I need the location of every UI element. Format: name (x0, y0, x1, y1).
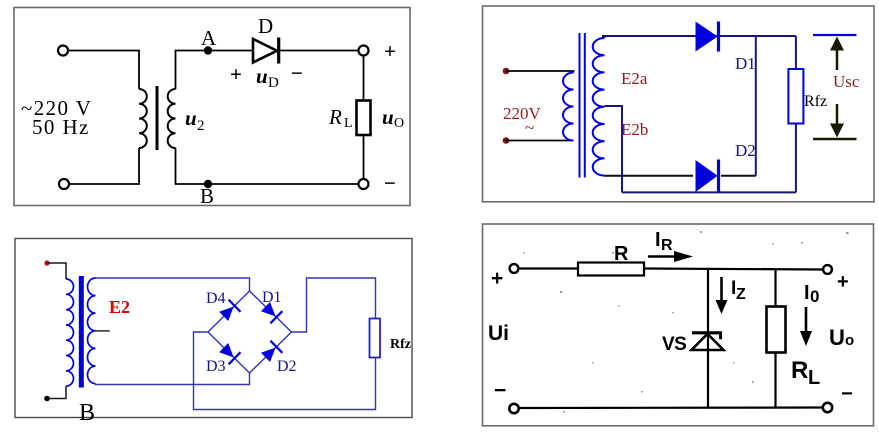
Usc down arrow (836, 104, 839, 126)
svg-text:+: + (230, 62, 242, 86)
diode D cathode bar (277, 38, 280, 64)
svg-text:I: I (655, 229, 661, 251)
terminal circle output plus (359, 46, 369, 56)
svg-text:220V: 220V (503, 104, 542, 123)
resistor RL box (regulator) (767, 307, 786, 353)
terminal circle input bottom (59, 179, 69, 189)
panel border frame (483, 6, 875, 202)
svg-text:B: B (79, 400, 95, 426)
svg-text:R: R (791, 357, 808, 384)
wire D2 cathode to junction (721, 175, 756, 177)
input dot top (red) (44, 260, 49, 265)
diode D3 (218, 342, 241, 365)
svg-text:R: R (614, 243, 629, 265)
wire right vertex to load top (292, 278, 376, 332)
svg-text:L: L (344, 116, 353, 131)
svg-text:VS: VS (662, 334, 686, 355)
terminal circle input + (510, 264, 519, 273)
transformer T2 core line 2 (584, 33, 586, 178)
node A (204, 46, 212, 54)
diode D2 (bridge) (260, 341, 283, 364)
wire input bottom (47, 386, 66, 398)
zener VS cathode bar (692, 331, 722, 334)
svg-text:E2b: E2b (621, 120, 648, 139)
diode D1 (bridge) (260, 301, 283, 324)
transformer T2 secondary coil E2a+E2b (593, 38, 605, 176)
svg-text:2: 2 (197, 118, 205, 134)
panel border frame (15, 239, 412, 418)
svg-text:−: − (291, 61, 303, 85)
bridge edge D2 (250, 332, 292, 373)
svg-text:D1: D1 (735, 54, 756, 73)
wire secondary bottom to D2 anode (605, 175, 694, 177)
terminal circle output - (823, 403, 832, 412)
wire top rail secondary to D1 to Rfz branch (605, 36, 796, 38)
zener VS hook (719, 333, 722, 340)
wire zener branch (707, 269, 709, 409)
svg-text:~: ~ (525, 118, 534, 137)
svg-text:E2: E2 (109, 297, 130, 317)
svg-text:A: A (201, 26, 217, 50)
svg-text:Z: Z (736, 286, 746, 303)
diode D2 triangle (696, 161, 717, 191)
wire Rfz branch upper (795, 36, 797, 69)
terminal circle output + (823, 265, 832, 274)
svg-text:o: o (845, 332, 854, 349)
terminal circle output minus (359, 179, 369, 189)
transformer T3 core bar (79, 276, 84, 388)
I0 arrow (805, 307, 808, 333)
node B (204, 180, 212, 188)
wire right branch upper (363, 56, 365, 101)
terminal circle input top (58, 46, 68, 56)
wire input top (506, 71, 574, 73)
svg-text:I: I (804, 282, 810, 304)
wire RL branch upper (774, 269, 776, 307)
resistor RL box (357, 101, 371, 136)
wire top rail right (644, 269, 823, 270)
transformer T1 primary coil (139, 89, 147, 148)
svg-text:E2a: E2a (621, 69, 648, 88)
transformer T1 secondary coil (168, 89, 176, 148)
wire secondary top black segment (602, 35, 680, 37)
svg-text:B: B (200, 184, 214, 208)
svg-text:−: − (384, 171, 396, 195)
wire secondary top rail to bridge top (96, 278, 250, 291)
svg-text:−: − (841, 383, 853, 405)
wire center tap (605, 106, 623, 192)
wire D1 cathode black segment (724, 35, 754, 37)
wire secondary bottom rail to bridge bottom (96, 373, 250, 385)
input dot top (503, 68, 510, 75)
svg-text:L: L (808, 367, 820, 389)
Usc bottom reference line (813, 138, 857, 141)
svg-text:+: + (491, 267, 503, 290)
svg-text:u: u (256, 64, 268, 88)
transformer T3 primary coil (66, 279, 74, 386)
svg-text:Usc: Usc (833, 72, 860, 91)
svg-text:O: O (394, 116, 404, 131)
diode D2 cathode bar (717, 160, 720, 193)
transformer T3 secondary coil (88, 278, 96, 384)
transformer T2 core line 1 (579, 33, 581, 178)
wire Rfz branch lower (795, 124, 797, 193)
svg-text:D2: D2 (735, 141, 756, 160)
svg-text:D3: D3 (206, 358, 226, 375)
transformer T1 core (156, 86, 159, 150)
svg-text:Ui: Ui (488, 322, 509, 345)
svg-text:0: 0 (810, 287, 819, 306)
wire input top (47, 263, 66, 279)
wire primary top (68, 51, 139, 90)
svg-text:R: R (661, 237, 673, 254)
bridge edge D3 (208, 332, 250, 373)
input dot bottom (black) (44, 396, 50, 402)
svg-text:Rfz: Rfz (390, 337, 411, 352)
wire junction vertical D1-D2 cathodes (755, 36, 757, 176)
wire left vertex to load bottom (194, 332, 376, 410)
wire bottom rail (622, 191, 796, 193)
center tap stub (96, 330, 110, 332)
IZ arrow (720, 277, 723, 302)
input dot bottom (503, 137, 510, 144)
wire primary bottom (69, 148, 139, 184)
resistor Rfz box (bridge) (370, 319, 381, 358)
terminal circle input - (509, 404, 518, 413)
svg-text:50 Hz: 50 Hz (32, 115, 90, 139)
svg-text:u: u (382, 105, 394, 129)
wire input bottom (506, 140, 574, 142)
wire secondary bottom to node B to - terminal (176, 148, 359, 184)
svg-text:+: + (384, 39, 396, 63)
svg-text:+: + (837, 271, 849, 293)
diode D1 triangle (696, 23, 717, 51)
scan noise specks (523, 231, 849, 413)
svg-text:R: R (328, 105, 342, 129)
wire right branch lower (363, 135, 365, 179)
svg-text:D2: D2 (277, 358, 297, 375)
svg-text:−: − (494, 379, 506, 402)
wire top rail left (519, 267, 579, 269)
diode D1 cathode bar (717, 22, 720, 52)
wire diode to + terminal (280, 50, 358, 52)
Usc top reference line (813, 34, 857, 36)
resistor R box (578, 263, 644, 276)
transformer T2 primary coil (563, 73, 574, 141)
svg-text:D: D (268, 75, 279, 91)
svg-text:D1: D1 (262, 289, 282, 306)
bridge edge D1 (250, 291, 292, 332)
svg-text:u: u (185, 106, 197, 130)
wire bottom rail (519, 406, 824, 409)
resistor Rfz box (788, 69, 803, 124)
svg-text:Rfz: Rfz (804, 93, 827, 110)
svg-text:U: U (829, 325, 845, 350)
panel border frame (14, 8, 410, 206)
wire RL branch lower (774, 353, 776, 409)
bridge edge D4 (208, 291, 250, 332)
svg-text:D: D (258, 14, 273, 38)
IR arrow (648, 255, 676, 258)
svg-text:D4: D4 (206, 290, 226, 307)
panel border frame (483, 224, 874, 426)
wire secondary top to node A to diode (176, 51, 253, 90)
diode D4 (218, 300, 241, 323)
zener VS triangle (692, 334, 724, 350)
diode D triangle (253, 39, 277, 63)
Usc up arrow (836, 48, 839, 70)
